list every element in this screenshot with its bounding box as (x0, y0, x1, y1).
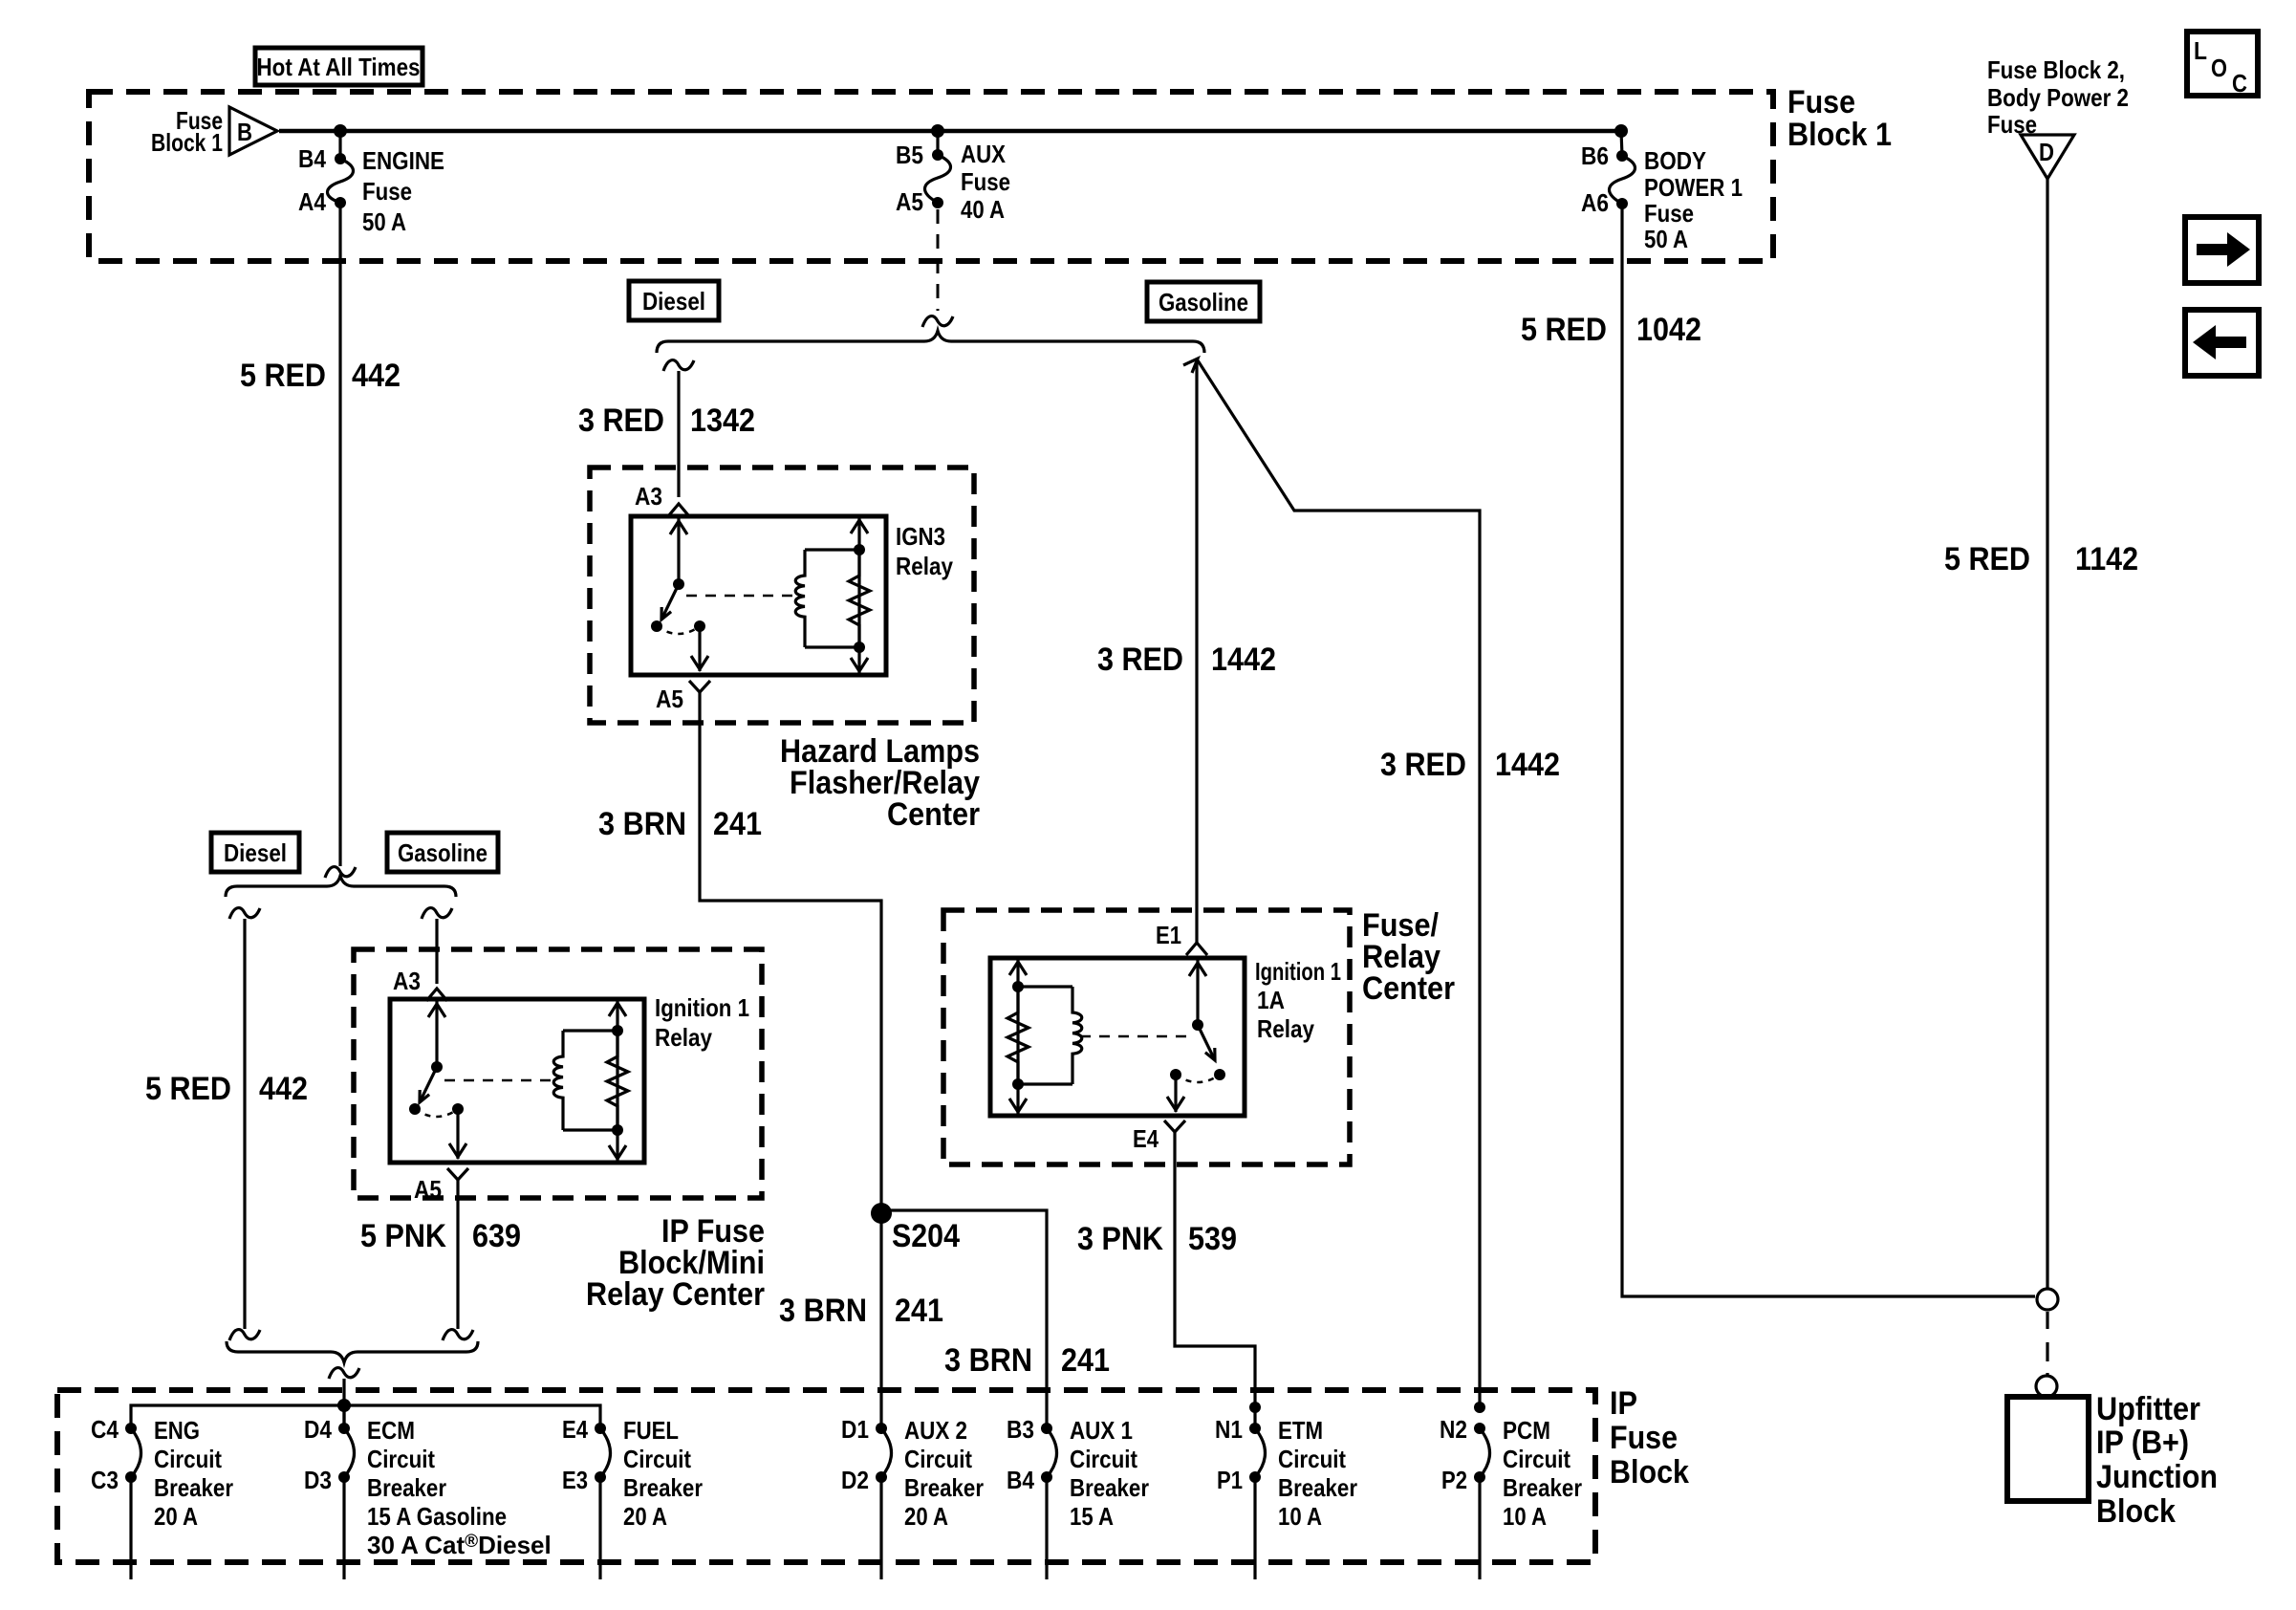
svg-text:Breaker: Breaker (367, 1473, 446, 1502)
svg-text:1342: 1342 (690, 402, 755, 439)
svg-text:D2: D2 (841, 1466, 869, 1494)
svg-text:Block 1: Block 1 (1787, 117, 1892, 153)
FUEL circuit breaker (E4/E3) (595, 1423, 606, 1434)
svg-text:FUEL: FUEL (623, 1416, 679, 1445)
svg-text:30 A Cat®Diesel: 30 A Cat®Diesel (367, 1531, 552, 1559)
svg-text:B6: B6 (1581, 141, 1609, 170)
wire 1142 from triangle D (2046, 179, 2048, 1289)
label 3 RED 1442 (E1 wire) (1097, 642, 1276, 678)
svg-text:Breaker: Breaker (154, 1473, 233, 1502)
brace splitting AUX feed to Diesel/Gasoline (657, 331, 1204, 353)
label 3 RED 1442 (right wire) (1380, 747, 1560, 783)
diagonal wire 1442 to right (1198, 360, 1480, 1407)
fuse ENGINE 50 A (B4/A4) (298, 131, 444, 236)
svg-text:Circuit: Circuit (154, 1445, 222, 1473)
svg-text:Circuit: Circuit (1070, 1445, 1137, 1473)
svg-text:1142: 1142 (2075, 541, 2138, 577)
svg-text:Breaker: Breaker (1070, 1473, 1149, 1502)
AUX 1 circuit breaker (B3/B4) (1041, 1423, 1052, 1434)
label: IP Fuse Block (1610, 1385, 1689, 1490)
svg-text:D4: D4 (304, 1415, 332, 1444)
svg-text:Breaker: Breaker (623, 1473, 703, 1502)
ignition 1 1A switch contacts (1170, 1069, 1181, 1080)
svg-text:Relay Center: Relay Center (586, 1276, 765, 1313)
ETM circuit breaker (N1/P1) (1249, 1423, 1261, 1434)
ignition 1 dashed actuate link (444, 1079, 552, 1082)
svg-text:Circuit: Circuit (1503, 1445, 1570, 1473)
wire 241 branch to B3 (881, 1210, 1047, 1428)
svg-text:Ignition 1: Ignition 1 (655, 993, 749, 1022)
connector ring lower (2036, 1376, 2057, 1397)
svg-text:20 A: 20 A (623, 1502, 667, 1531)
svg-text:Diesel: Diesel (224, 838, 287, 867)
svg-text:Fuse Block 2,: Fuse Block 2, (1987, 55, 2125, 84)
IGN3 relay box (631, 516, 886, 675)
svg-text:A3: A3 (393, 967, 421, 995)
svg-text:Relay: Relay (896, 552, 953, 580)
svg-text:P1: P1 (1217, 1466, 1243, 1494)
label 3 RED 1342 (578, 402, 755, 439)
wire 539 from E4 to N1 (1175, 1132, 1255, 1428)
left arrow box (2185, 310, 2259, 376)
svg-text:ENGINE: ENGINE (362, 146, 444, 175)
svg-text:O: O (2211, 54, 2227, 82)
svg-text:1442: 1442 (1495, 747, 1560, 783)
svg-text:POWER 1: POWER 1 (1644, 173, 1743, 202)
svg-text:3 BRN: 3 BRN (944, 1342, 1032, 1379)
connector E1 (1186, 943, 1207, 955)
ignition 1 1A relay switch (right side) (1196, 960, 1199, 1025)
svg-text:15 A Gasoline: 15 A Gasoline (367, 1502, 507, 1531)
svg-text:Upfitter: Upfitter (2096, 1391, 2200, 1427)
wire 241 from hazard A5 to S204 (700, 692, 881, 1213)
svg-text:Block: Block (2096, 1493, 2176, 1530)
svg-text:Fuse: Fuse (1787, 84, 1855, 120)
svg-text:E1: E1 (1156, 921, 1181, 949)
Ignition 1 Relay box (390, 999, 644, 1163)
break symbol gasoline-right branch (422, 908, 452, 919)
splice S204 (871, 1203, 892, 1224)
svg-text:3 PNK: 3 PNK (1077, 1221, 1163, 1257)
svg-text:40 A: 40 A (961, 195, 1005, 224)
connector ring upper (2037, 1289, 2058, 1310)
ignition 1 relay switch (435, 1001, 438, 1067)
svg-text:5 RED: 5 RED (145, 1071, 231, 1107)
svg-text:Circuit: Circuit (367, 1445, 435, 1473)
svg-text:A3: A3 (635, 482, 662, 511)
wire to E1 (1195, 360, 1198, 943)
svg-text:D1: D1 (841, 1415, 869, 1444)
svg-text:Hot At All Times: Hot At All Times (257, 53, 421, 81)
svg-text:AUX: AUX (961, 140, 1007, 168)
arrow chevron on gasoline branch (1183, 359, 1198, 373)
IGN3 relay coil and resistor (857, 516, 860, 675)
label 3 BRN 241 (hazard wire) (598, 806, 762, 842)
junction node at B4 (334, 124, 347, 138)
svg-text:Diesel: Diesel (642, 287, 705, 315)
svg-text:5 RED: 5 RED (1521, 312, 1607, 348)
label: IP Fuse Block/Mini Relay Center (586, 1213, 765, 1313)
dashed link between rings (2046, 1312, 2048, 1376)
break symbol below merge brace (329, 1368, 359, 1379)
IGN3 dashed actuate link (686, 595, 793, 598)
Hazard Lamps Flasher/Relay Center dashed box (590, 468, 974, 723)
svg-text:639: 639 (472, 1218, 521, 1254)
ignition 1 1A relay coil and resistor (left side) (1016, 958, 1019, 1116)
Upfitter IP (B+) Junction Block box (2007, 1397, 2089, 1501)
svg-text:1042: 1042 (1636, 312, 1701, 348)
svg-text:ECM: ECM (367, 1416, 415, 1445)
svg-text:B3: B3 (1007, 1415, 1034, 1444)
ECM circuit breaker (D4/D3) (338, 1423, 350, 1434)
svg-text:10 A: 10 A (1503, 1502, 1547, 1531)
svg-text:A5: A5 (656, 685, 683, 713)
svg-text:L: L (2194, 36, 2207, 65)
svg-text:N2: N2 (1440, 1415, 1467, 1444)
svg-text:BODY: BODY (1644, 146, 1706, 175)
break symbol above diesel/gasoline brace (325, 867, 356, 878)
break symbol at bottom of 442 wire (229, 1330, 260, 1340)
label: Fuse Block 1 (right of box) (1787, 84, 1892, 153)
svg-text:Body Power 2: Body Power 2 (1987, 83, 2129, 112)
svg-text:D3: D3 (304, 1466, 332, 1494)
wire from brace into IP fuse block (342, 1379, 345, 1428)
svg-text:D: D (2039, 138, 2054, 166)
svg-text:442: 442 (259, 1071, 308, 1107)
ignition 1 1A dashed actuate link (1080, 1035, 1191, 1038)
label box Diesel (top) (629, 281, 719, 320)
connector triangle B (151, 106, 277, 157)
svg-text:Gasoline: Gasoline (398, 838, 487, 867)
wire 639 from A5 (456, 1180, 459, 1329)
AUX 2 circuit breaker (D1/D2) (876, 1423, 887, 1434)
svg-text:50 A: 50 A (362, 207, 406, 236)
svg-text:A6: A6 (1581, 188, 1609, 217)
junction dot on bus (337, 1399, 351, 1412)
label box Gasoline (left) (387, 833, 498, 872)
Fuse Block 1 dashed box (89, 92, 1773, 261)
wire 1342 to hazard A3 (677, 371, 680, 497)
svg-text:E3: E3 (562, 1466, 588, 1494)
svg-text:Fuse: Fuse (961, 167, 1010, 196)
svg-text:3 RED: 3 RED (1097, 642, 1183, 678)
connector A3 (ignition 1 relay) (426, 989, 447, 1001)
svg-text:E4: E4 (1133, 1124, 1159, 1153)
ignition 1 switch contacts (409, 1103, 421, 1115)
svg-text:1442: 1442 (1211, 642, 1276, 678)
svg-text:50 A: 50 A (1644, 225, 1688, 253)
label: Hazard Lamps Flasher/Relay Center (780, 733, 980, 833)
svg-text:Relay: Relay (1257, 1014, 1314, 1043)
svg-text:ENG: ENG (154, 1416, 200, 1445)
connector A5 (hazard) (689, 681, 710, 692)
svg-text:539: 539 (1188, 1221, 1237, 1257)
svg-text:Breaker: Breaker (904, 1473, 984, 1502)
wire 241 below S204 to D1 (879, 1213, 882, 1428)
brace splitting ENGINE feed to Diesel/Gasoline (226, 876, 456, 897)
Ignition 1 1A Relay box (990, 958, 1245, 1116)
svg-text:Junction: Junction (2096, 1459, 2218, 1495)
svg-text:3 RED: 3 RED (1380, 747, 1466, 783)
svg-text:20 A: 20 A (154, 1502, 198, 1531)
svg-text:B5: B5 (896, 141, 923, 169)
svg-text:A5: A5 (414, 1175, 442, 1204)
svg-text:Block: Block (1610, 1454, 1689, 1490)
right arrow box (2185, 217, 2259, 283)
svg-text:Circuit: Circuit (1278, 1445, 1346, 1473)
svg-text:Center: Center (887, 796, 980, 833)
svg-text:C4: C4 (91, 1415, 119, 1444)
svg-text:241: 241 (713, 806, 762, 842)
svg-text:241: 241 (895, 1293, 943, 1329)
IP Fuse Block dashed box (57, 1390, 1595, 1562)
svg-text:PCM: PCM (1503, 1416, 1550, 1445)
brace merging 442 and 639 wires (227, 1341, 478, 1362)
svg-text:Center: Center (1362, 970, 1455, 1007)
svg-text:442: 442 (352, 358, 401, 394)
svg-text:AUX 2: AUX 2 (904, 1416, 967, 1445)
IP Fuse Block/Mini Relay Center dashed box (354, 949, 762, 1198)
PCM circuit breaker (N2/P2) (1474, 1423, 1485, 1434)
label: Fuse/Relay Center (1362, 907, 1455, 1007)
IGN3 switch contacts (651, 620, 662, 632)
ignition 1 relay coil and resistor (616, 999, 618, 1163)
wire 442 (diesel) down to brace (243, 919, 246, 1329)
svg-text:241: 241 (1061, 1342, 1110, 1379)
svg-text:5 PNK: 5 PNK (360, 1218, 446, 1254)
svg-text:Fuse: Fuse (1644, 199, 1694, 228)
junction node at B5 (931, 124, 944, 138)
svg-text:Circuit: Circuit (904, 1445, 972, 1473)
svg-text:Relay: Relay (655, 1023, 712, 1052)
IGN3 relay switch (677, 518, 680, 584)
svg-text:P2: P2 (1441, 1466, 1467, 1494)
svg-text:Circuit: Circuit (623, 1445, 691, 1473)
connector E4 (1164, 1120, 1185, 1132)
label box: Hot At All Times (255, 48, 422, 85)
fuse BODY POWER 1 50 A (B6/A6) (1581, 131, 1743, 253)
svg-text:5 RED: 5 RED (240, 358, 326, 394)
svg-text:S204: S204 (892, 1218, 960, 1254)
svg-text:3 BRN: 3 BRN (598, 806, 686, 842)
wire 442 from A4 down (338, 203, 341, 866)
connector triangle D (2021, 135, 2074, 179)
svg-text:A4: A4 (298, 187, 326, 216)
wire to ignition1 relay A3 (435, 919, 438, 984)
label box Diesel (left) (211, 833, 299, 872)
svg-text:AUX 1: AUX 1 (1070, 1416, 1133, 1445)
svg-text:C3: C3 (91, 1466, 119, 1494)
junction dot on PCM feed (1474, 1402, 1485, 1413)
svg-text:A5: A5 (896, 187, 923, 216)
label box Gasoline (top) (1147, 282, 1260, 321)
Fuse/Relay Center dashed box (943, 910, 1350, 1164)
svg-text:B4: B4 (1007, 1466, 1034, 1494)
connector A3 (hazard) (668, 504, 689, 516)
label: Fuse Block 2, Body Power 2 Fuse (1987, 55, 2129, 139)
svg-text:C: C (2232, 69, 2247, 98)
svg-text:20 A: 20 A (904, 1502, 948, 1531)
svg-text:N1: N1 (1215, 1415, 1243, 1444)
svg-text:IP: IP (1610, 1385, 1637, 1422)
svg-text:5 RED: 5 RED (1944, 541, 2030, 577)
svg-text:Breaker: Breaker (1503, 1473, 1582, 1502)
junction dot on ETM feed (1249, 1402, 1261, 1413)
svg-text:E4: E4 (562, 1415, 588, 1444)
svg-text:3 BRN: 3 BRN (779, 1293, 867, 1329)
ENG circuit breaker (C4/C3) (125, 1423, 137, 1434)
wire bus to D4 (342, 1405, 345, 1428)
bus wire (hot feed) (279, 129, 1621, 134)
svg-text:10 A: 10 A (1278, 1502, 1322, 1531)
svg-text:15 A: 15 A (1070, 1502, 1114, 1531)
svg-text:B4: B4 (298, 144, 326, 173)
svg-text:Gasoline: Gasoline (1159, 288, 1248, 316)
break symbol on A5 wire (922, 316, 953, 327)
wire 1042 from A6 to upfitter junction (1622, 204, 2035, 1296)
svg-text:IP (B+): IP (B+) (2096, 1425, 2189, 1461)
svg-text:Fuse: Fuse (362, 177, 412, 206)
fuse AUX 40 A (B5/A5) (896, 131, 1010, 224)
label 5 RED 442 (240, 358, 401, 394)
svg-text:1A: 1A (1257, 986, 1285, 1014)
svg-text:Ignition 1: Ignition 1 (1255, 957, 1341, 986)
svg-text:Breaker: Breaker (1278, 1473, 1357, 1502)
svg-text:IGN3: IGN3 (896, 522, 945, 551)
junction node at B6 corner (1614, 124, 1628, 138)
svg-text:Block 1: Block 1 (151, 128, 223, 157)
dashed wire from A5 (937, 209, 940, 311)
break symbol diesel-left branch (229, 908, 260, 919)
svg-text:Fuse: Fuse (1610, 1420, 1678, 1456)
svg-text:B: B (237, 118, 252, 146)
svg-text:3 RED: 3 RED (578, 402, 664, 439)
svg-text:ETM: ETM (1278, 1416, 1323, 1445)
feed bus inside IP fuse block (131, 1405, 600, 1428)
break symbol on diesel branch (663, 360, 694, 371)
LOC reference box (2187, 32, 2258, 98)
connector A5 (ignition 1 relay) (447, 1168, 468, 1180)
